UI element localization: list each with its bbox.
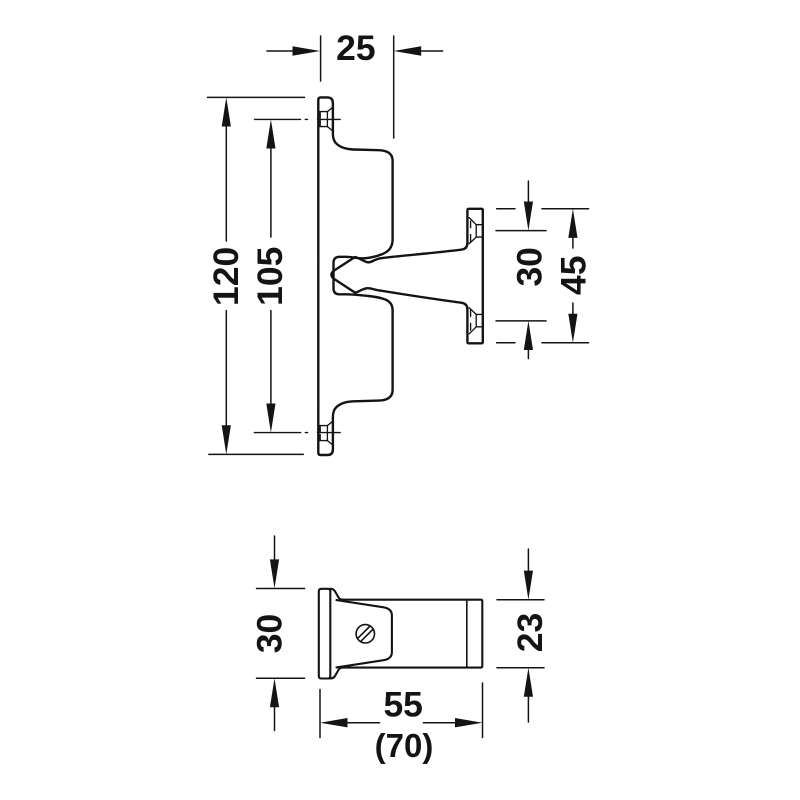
dimension 120 (left outer) (208, 97, 305, 454)
plate top edge extension + flare to body (330, 589, 342, 600)
plate hole 1 (top) countersink section (320, 107, 333, 131)
handrail flange (right) (467, 209, 482, 343)
support arm with wedge end (331, 243, 467, 309)
dimension 45 (right, flange height) (497, 209, 589, 343)
dimension 23 (bottom view, body width) (497, 549, 544, 722)
flange inner face line (bottom view) (466, 600, 468, 668)
svg-text:120: 120 (206, 247, 246, 306)
wall plate edge (bottom view) (319, 589, 331, 679)
arm boss (bottom view) (337, 600, 392, 667)
body (bottom view) (342, 600, 482, 668)
dimension 25 (top) (267, 36, 443, 138)
svg-text:30: 30 (250, 614, 290, 654)
svg-text:25: 25 (336, 28, 376, 68)
fixing screw head with slot (356, 625, 374, 643)
svg-text:23: 23 (510, 613, 550, 653)
plate hole 1 centerline (255, 118, 341, 120)
svg-text:105: 105 (250, 247, 290, 306)
flange hole 1 (top) countersink section (469, 218, 482, 244)
svg-text:45: 45 (554, 255, 594, 295)
wall plate outline with channel pocket (318, 97, 392, 455)
svg-text:55: 55 (383, 685, 423, 725)
flange hole 2 (bottom) countersink section (469, 308, 482, 334)
dimension 30 (bottom view, plate height) (257, 536, 305, 731)
plate hole 2 centerline (254, 432, 340, 434)
dimension 30 (right, hole spacing) (496, 181, 546, 359)
svg-text:30: 30 (509, 247, 549, 287)
svg-text:(70): (70) (375, 727, 434, 764)
dimension 105 (left inner) (270, 146, 272, 406)
plate hole 2 (bottom) countersink section (320, 421, 333, 445)
dimension 55 / (70) (bottom) (320, 683, 483, 738)
